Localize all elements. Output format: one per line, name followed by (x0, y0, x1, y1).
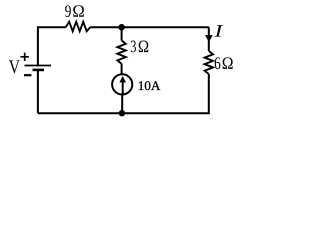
current source arrow shaft (122, 82, 124, 94)
value label Ohm of R2 (139, 41, 149, 53)
resistor R1 9 Ohm (horizontal zigzag) (66, 22, 91, 32)
node junction dot (top of middle branch) (118, 24, 124, 30)
value label 9 (65, 5, 71, 17)
value label Ohm of R1 (73, 5, 84, 17)
wire left-top: from battery up and across to 9-ohm resistor (38, 27, 66, 66)
wire right: top-right corner down to 6-ohm resistor (208, 27, 210, 51)
value label 10A (139, 81, 144, 90)
wire: 3-ohm resistor down to current source (121, 64, 123, 75)
value label 6 (215, 57, 221, 69)
current label I (italic) (214, 25, 223, 36)
battery plus sign (21, 53, 29, 61)
battery V1 positive plate (long) (25, 65, 52, 67)
battery minus sign (24, 74, 31, 76)
wire: 6-ohm resistor to bottom-right corner and bottom rail (38, 74, 209, 113)
resistor R2 3 Ohm (vertical zigzag) (117, 41, 125, 64)
node junction dot (bottom of middle branch) (119, 110, 125, 116)
wire: current source to bottom node (121, 95, 123, 114)
wire: bottom-left corner up to battery negative plate (37, 70, 39, 113)
wire top: 9-ohm resistor to top-right corner (90, 26, 209, 28)
value label Ohm of R3 (223, 57, 233, 69)
arrowhead of branch current I (pointing down) (205, 35, 213, 42)
resistor R3 6 Ohm (vertical zigzag) (205, 51, 213, 74)
current source arrowhead (pointing up) (119, 76, 126, 82)
source label V (9, 60, 20, 73)
current source I1 (circle) (112, 74, 132, 94)
wire: top node down to 3-ohm resistor (121, 27, 123, 40)
value label 3 (131, 41, 136, 53)
battery V1 negative plate (short thick) (33, 69, 45, 72)
